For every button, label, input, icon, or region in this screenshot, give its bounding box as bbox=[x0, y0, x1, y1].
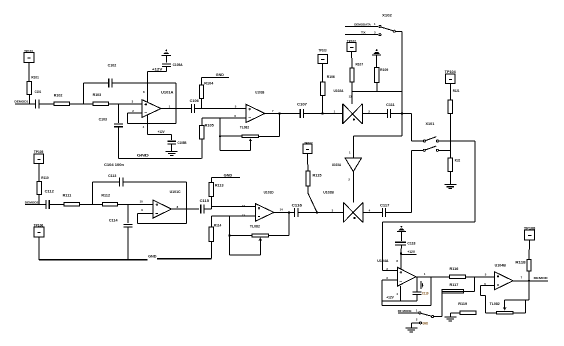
test point TP108 bbox=[524, 226, 536, 240]
svg-text:U101B: U101B bbox=[255, 91, 265, 95]
wire bbox=[171, 208, 199, 210]
resistor R102 bbox=[54, 94, 70, 106]
svg-text:C117: C117 bbox=[380, 203, 390, 207]
wire bbox=[352, 172, 354, 203]
wire bbox=[395, 30, 402, 32]
wire bbox=[112, 82, 176, 84]
wire bbox=[382, 305, 431, 307]
svg-text:X102: X102 bbox=[382, 14, 392, 18]
svg-text:+12V: +12V bbox=[407, 250, 415, 254]
capacitor C115 bbox=[200, 199, 210, 214]
wire bbox=[474, 141, 476, 222]
wire bbox=[220, 135, 242, 137]
svg-text:+12V: +12V bbox=[152, 68, 163, 72]
svg-text:C106: C106 bbox=[190, 99, 199, 103]
wire bbox=[28, 62, 30, 81]
wire bbox=[279, 114, 281, 137]
wire bbox=[528, 281, 530, 300]
node junction bbox=[316, 211, 318, 213]
svg-text:R102: R102 bbox=[54, 94, 63, 98]
jumper pin bbox=[423, 140, 425, 142]
svg-text:R107: R107 bbox=[356, 63, 364, 67]
op-amp U101B bbox=[240, 91, 265, 130]
wire bbox=[401, 31, 403, 136]
wire bbox=[127, 113, 129, 123]
resistor R110 bbox=[37, 176, 49, 194]
wire bbox=[165, 55, 167, 62]
svg-text:R115: R115 bbox=[313, 173, 322, 177]
wire +12V bbox=[148, 68, 167, 72]
wire bbox=[353, 135, 402, 137]
wire bbox=[268, 235, 289, 237]
wire bbox=[288, 212, 290, 235]
wire bbox=[416, 276, 450, 278]
wire bbox=[210, 178, 212, 183]
wire bbox=[376, 55, 378, 68]
wire bbox=[322, 64, 324, 82]
capacitor C106 bbox=[190, 99, 199, 113]
resistor R111 bbox=[63, 194, 80, 207]
wire bbox=[83, 83, 85, 104]
jumper pin bbox=[393, 30, 395, 32]
svg-text:+12V: +12V bbox=[158, 130, 166, 134]
capacitor C112 bbox=[45, 190, 54, 209]
wire bbox=[249, 141, 251, 150]
test point TP105 bbox=[34, 150, 44, 163]
capacitor C113 bbox=[108, 174, 123, 186]
wire bbox=[400, 286, 402, 301]
svg-text:DEMOD1: DEMOD1 bbox=[14, 100, 28, 104]
svg-text:R110: R110 bbox=[41, 176, 49, 180]
wire bbox=[204, 208, 212, 210]
power +12V symbol bbox=[372, 54, 381, 56]
svg-text:C119: C119 bbox=[422, 292, 429, 296]
wire bbox=[513, 312, 525, 314]
test point TP103 bbox=[318, 48, 327, 63]
wire bbox=[441, 291, 443, 316]
resistor R115 bbox=[306, 171, 322, 186]
wire bbox=[481, 284, 495, 286]
wire bbox=[229, 235, 252, 237]
wire bbox=[175, 83, 177, 123]
wire bbox=[434, 316, 442, 318]
svg-text:R119: R119 bbox=[458, 302, 467, 306]
wire bbox=[412, 140, 424, 142]
wire RF MODE bbox=[398, 309, 419, 313]
wire TX bbox=[345, 31, 378, 35]
potentiometer RV2 bbox=[252, 234, 268, 240]
wire bbox=[92, 182, 94, 204]
svg-text:C115: C115 bbox=[200, 199, 210, 203]
svg-text:R117: R117 bbox=[450, 283, 459, 287]
capacitor C107 bbox=[297, 102, 307, 118]
jumper blade bbox=[421, 313, 432, 316]
resistor R101 bbox=[27, 76, 39, 95]
resistor R112 bbox=[101, 193, 117, 206]
wire bbox=[416, 294, 418, 301]
test point TP104 bbox=[445, 70, 456, 84]
wire bbox=[49, 203, 153, 205]
wire bbox=[351, 52, 353, 68]
svg-text:R116: R116 bbox=[450, 267, 459, 271]
svg-text:+12V: +12V bbox=[386, 296, 394, 300]
wire bbox=[201, 77, 203, 85]
wire bbox=[410, 323, 412, 328]
test point TP106 bbox=[34, 223, 44, 237]
wire bbox=[303, 113, 342, 115]
wire bbox=[38, 237, 40, 260]
svg-text:C103: C103 bbox=[99, 118, 108, 122]
svg-text:R113: R113 bbox=[215, 183, 224, 187]
wire bbox=[210, 206, 212, 209]
wire bbox=[137, 222, 186, 224]
wire bbox=[210, 242, 212, 259]
resistor R117 bbox=[442, 283, 464, 293]
node junction bbox=[401, 112, 403, 114]
wire +12V bbox=[401, 250, 416, 255]
jumper pin bbox=[419, 312, 421, 314]
svg-text:R105: R105 bbox=[205, 124, 214, 128]
jumper blade bbox=[426, 137, 437, 141]
wire bbox=[442, 290, 475, 292]
wire bbox=[211, 215, 255, 217]
svg-text:C102: C102 bbox=[108, 63, 117, 67]
svg-text:U104A: U104A bbox=[377, 259, 389, 263]
jumper pin bbox=[379, 34, 381, 36]
svg-text:12: 12 bbox=[242, 204, 246, 208]
capacitor C101 bbox=[35, 90, 42, 108]
svg-text:C105B: C105B bbox=[178, 141, 188, 145]
svg-text:C116: C116 bbox=[292, 204, 303, 208]
wire bbox=[449, 171, 451, 184]
svg-text:C101: C101 bbox=[35, 90, 42, 94]
power +12V symbol bbox=[397, 231, 406, 233]
op-amp U101C bbox=[153, 190, 181, 218]
wire bbox=[528, 271, 530, 281]
wire bbox=[449, 84, 451, 100]
wire GND rail bbox=[39, 255, 212, 260]
wire bbox=[450, 312, 460, 314]
wire bbox=[137, 213, 153, 215]
svg-text:TP108: TP108 bbox=[524, 226, 536, 230]
wire bbox=[430, 277, 432, 306]
wire bbox=[466, 276, 495, 278]
wire bbox=[400, 254, 402, 270]
op-amp U104A bbox=[377, 259, 416, 286]
svg-text:GND: GND bbox=[422, 321, 428, 325]
wire bbox=[201, 118, 203, 126]
wire bbox=[376, 83, 378, 92]
wire bbox=[161, 108, 191, 110]
capacitor C105A bbox=[162, 63, 183, 67]
wire bbox=[93, 181, 120, 183]
wire bbox=[84, 82, 109, 84]
wire bbox=[127, 227, 129, 260]
wire GND rail bbox=[119, 154, 202, 159]
svg-text:R122: R122 bbox=[455, 159, 461, 163]
op-amp U104B bbox=[494, 263, 513, 289]
wire GND stub bbox=[202, 73, 230, 77]
wire bbox=[528, 240, 531, 260]
capacitor C116 bbox=[292, 204, 303, 217]
svg-text:TP105: TP105 bbox=[34, 150, 44, 154]
wire bbox=[450, 140, 475, 142]
svg-text:C118: C118 bbox=[407, 242, 415, 246]
svg-text:C104 100n: C104 100n bbox=[104, 163, 124, 167]
svg-text:C112: C112 bbox=[45, 190, 54, 194]
wire bbox=[220, 149, 250, 151]
wire bbox=[485, 296, 487, 313]
resistor R114 bbox=[209, 223, 221, 241]
capacitor C117 bbox=[380, 203, 390, 217]
resistor R107 bbox=[350, 63, 363, 82]
wire bbox=[322, 95, 324, 113]
wire bbox=[308, 193, 317, 212]
svg-text:R112: R112 bbox=[101, 193, 110, 197]
node junction bbox=[400, 252, 402, 254]
wire bbox=[391, 113, 412, 115]
svg-text:R101: R101 bbox=[31, 76, 39, 80]
wire bbox=[128, 122, 176, 124]
resistor R104 bbox=[199, 81, 213, 98]
wire bbox=[363, 211, 382, 213]
wire bbox=[136, 214, 138, 224]
test point TP107 bbox=[303, 141, 313, 153]
resistor R122 bbox=[448, 158, 460, 172]
svg-text:C111: C111 bbox=[386, 103, 395, 107]
capacitor C114 bbox=[109, 218, 132, 227]
wire bbox=[362, 113, 387, 115]
ground bbox=[405, 327, 417, 329]
capacitor C103 bbox=[99, 118, 123, 127]
wire bbox=[401, 232, 403, 241]
analog switch U102A bbox=[334, 89, 363, 124]
svg-text:C114: C114 bbox=[109, 218, 118, 222]
svg-text:R103: R103 bbox=[93, 93, 102, 97]
jumper blade bbox=[381, 27, 393, 31]
wire bbox=[412, 149, 424, 151]
wire bbox=[165, 67, 167, 72]
wire bbox=[186, 182, 188, 223]
wire bbox=[411, 322, 419, 324]
wire bbox=[382, 222, 384, 270]
wire bbox=[386, 211, 412, 213]
svg-text:R106: R106 bbox=[327, 75, 335, 79]
wire bbox=[118, 127, 120, 159]
resistor R105 bbox=[200, 124, 214, 140]
node junction bbox=[228, 234, 230, 236]
svg-text:TP103: TP103 bbox=[319, 48, 327, 52]
wire bbox=[202, 117, 246, 119]
capacitor C119 bbox=[413, 292, 429, 296]
svg-text:U101D: U101D bbox=[264, 190, 275, 194]
potentiometer RV3 bbox=[497, 308, 513, 315]
svg-text:U104B: U104B bbox=[495, 263, 507, 267]
wire bbox=[201, 98, 203, 108]
wire bbox=[201, 139, 203, 159]
jumper pin bbox=[379, 25, 381, 27]
wire bbox=[411, 150, 413, 212]
capacitor C105B bbox=[167, 141, 187, 145]
svg-text:TP106: TP106 bbox=[34, 223, 44, 227]
wire bbox=[171, 134, 173, 140]
capacitor C118 bbox=[395, 242, 415, 246]
wire bbox=[439, 140, 451, 142]
inverter U103A bbox=[332, 158, 362, 171]
connector X102 bbox=[382, 14, 392, 18]
svg-text:X101: X101 bbox=[426, 122, 435, 126]
wire DEMOD output bbox=[513, 276, 549, 281]
wire +12V bbox=[148, 130, 172, 134]
wire bbox=[307, 186, 309, 193]
wire bbox=[504, 300, 506, 307]
wire bbox=[481, 295, 486, 297]
svg-text:U101A: U101A bbox=[161, 90, 174, 94]
wire bbox=[25, 203, 46, 205]
wire bbox=[38, 164, 40, 182]
svg-text:TP101: TP101 bbox=[24, 49, 33, 53]
capacitor C102 bbox=[108, 63, 117, 87]
wire bbox=[147, 115, 149, 135]
svg-text:DEMOD: DEMOD bbox=[534, 276, 549, 280]
analog switch U102B bbox=[323, 191, 363, 223]
svg-text:R118: R118 bbox=[515, 260, 525, 264]
jumper pin bbox=[423, 149, 425, 151]
wire bbox=[352, 136, 354, 158]
resistor R109 bbox=[375, 68, 389, 83]
wire bbox=[39, 103, 142, 105]
svg-text:R114: R114 bbox=[214, 223, 222, 227]
svg-text:TL082: TL082 bbox=[240, 125, 249, 129]
resistor R116 bbox=[449, 267, 465, 279]
svg-text:U102A: U102A bbox=[334, 89, 345, 93]
power +12V symbol bbox=[162, 54, 171, 56]
wire bbox=[486, 312, 497, 314]
ground bbox=[166, 151, 178, 153]
svg-text:C105A: C105A bbox=[173, 63, 184, 67]
svg-text:DEMOD2: DEMOD2 bbox=[25, 200, 39, 204]
wire bbox=[382, 279, 397, 281]
resistor R118 bbox=[515, 260, 531, 271]
jumper pin bbox=[436, 149, 438, 151]
op-amp U101A bbox=[142, 90, 174, 117]
wire bbox=[449, 313, 451, 317]
svg-text:GND: GND bbox=[137, 154, 150, 158]
wire bbox=[229, 254, 260, 256]
svg-text:C113: C113 bbox=[108, 174, 116, 178]
svg-text:U102B: U102B bbox=[323, 191, 334, 195]
svg-text:U103A: U103A bbox=[332, 163, 342, 167]
ground bbox=[444, 316, 456, 318]
svg-text:10: 10 bbox=[140, 200, 144, 204]
wire bbox=[195, 108, 247, 110]
svg-text:R104: R104 bbox=[204, 81, 213, 85]
diode D101 bbox=[417, 277, 423, 292]
wire bbox=[265, 113, 300, 115]
svg-text:GND: GND bbox=[216, 73, 225, 77]
wire bbox=[259, 135, 280, 137]
wire bbox=[274, 211, 295, 213]
wire GND stub bbox=[211, 174, 239, 178]
svg-text:GND: GND bbox=[148, 255, 157, 259]
wire bbox=[15, 103, 36, 105]
resistor R121 bbox=[448, 89, 459, 113]
svg-text:TL082: TL082 bbox=[250, 225, 260, 229]
potentiometer RV1 bbox=[242, 135, 258, 141]
wire bbox=[474, 277, 476, 292]
wire bbox=[449, 114, 451, 158]
node junction bbox=[278, 112, 280, 114]
op-amp U101D bbox=[250, 190, 274, 228]
wire bbox=[210, 216, 212, 227]
resistor R103 bbox=[93, 93, 109, 105]
svg-text:GND: GND bbox=[224, 174, 233, 178]
resistor R119 bbox=[458, 302, 476, 315]
svg-text:U101C: U101C bbox=[170, 190, 182, 194]
wire bbox=[411, 114, 413, 142]
wire control bbox=[352, 91, 402, 93]
capacitor C111 bbox=[386, 103, 395, 118]
wire bbox=[298, 211, 344, 213]
wire bbox=[127, 204, 129, 223]
svg-text:TL082: TL082 bbox=[490, 302, 500, 306]
svg-text:DEMODATA: DEMODATA bbox=[354, 22, 371, 26]
node junction bbox=[219, 135, 221, 137]
wire bbox=[118, 104, 120, 123]
wire bbox=[400, 245, 403, 254]
jumper pin bbox=[436, 140, 438, 142]
ground bbox=[444, 184, 456, 186]
wire bbox=[505, 299, 529, 301]
wire bbox=[210, 197, 212, 207]
svg-text:C107: C107 bbox=[297, 102, 307, 106]
wire bbox=[480, 285, 482, 295]
wire bbox=[219, 118, 221, 151]
resistor R113 bbox=[209, 183, 223, 197]
node junction bbox=[528, 280, 530, 282]
svg-text:TP102: TP102 bbox=[347, 39, 356, 43]
wire bbox=[171, 144, 173, 152]
node junction bbox=[321, 112, 323, 114]
wire bbox=[381, 280, 383, 305]
wire +12V bbox=[382, 296, 417, 302]
svg-text:R109: R109 bbox=[380, 68, 388, 72]
jumper pin bbox=[419, 322, 421, 324]
wire bbox=[524, 300, 526, 313]
wire bbox=[259, 240, 261, 254]
svg-text:RF MODE: RF MODE bbox=[398, 309, 412, 313]
wire bbox=[28, 95, 30, 104]
wire bbox=[123, 181, 187, 183]
svg-text:TP107: TP107 bbox=[304, 141, 313, 145]
svg-text:R111: R111 bbox=[63, 194, 72, 198]
wire bbox=[38, 195, 40, 205]
wire bbox=[211, 205, 255, 207]
wire bbox=[439, 149, 451, 151]
wire bbox=[307, 154, 309, 171]
node junction bbox=[288, 211, 290, 213]
wire bbox=[147, 72, 149, 103]
test point TP101 bbox=[24, 49, 34, 62]
wire bbox=[351, 82, 353, 104]
wire bbox=[383, 269, 398, 271]
wire bbox=[228, 216, 230, 255]
svg-text:TP104: TP104 bbox=[445, 70, 456, 74]
test point TP102 bbox=[347, 39, 356, 51]
wire bbox=[383, 221, 475, 223]
svg-text:R121: R121 bbox=[453, 89, 460, 93]
jumper blade bbox=[425, 146, 436, 150]
